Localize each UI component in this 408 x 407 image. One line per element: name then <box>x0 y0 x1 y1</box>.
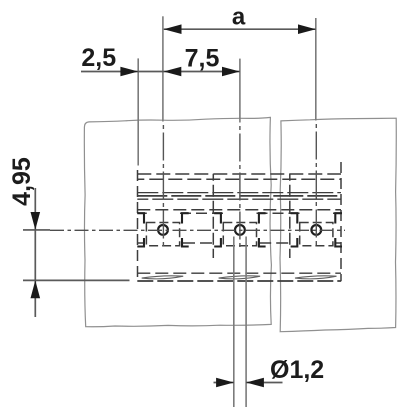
svg-text:7,5: 7,5 <box>185 44 220 72</box>
svg-text:a: a <box>232 4 246 31</box>
svg-text:Ø1,2: Ø1,2 <box>270 356 324 384</box>
svg-text:4,95: 4,95 <box>8 157 36 206</box>
svg-text:2,5: 2,5 <box>81 44 116 72</box>
